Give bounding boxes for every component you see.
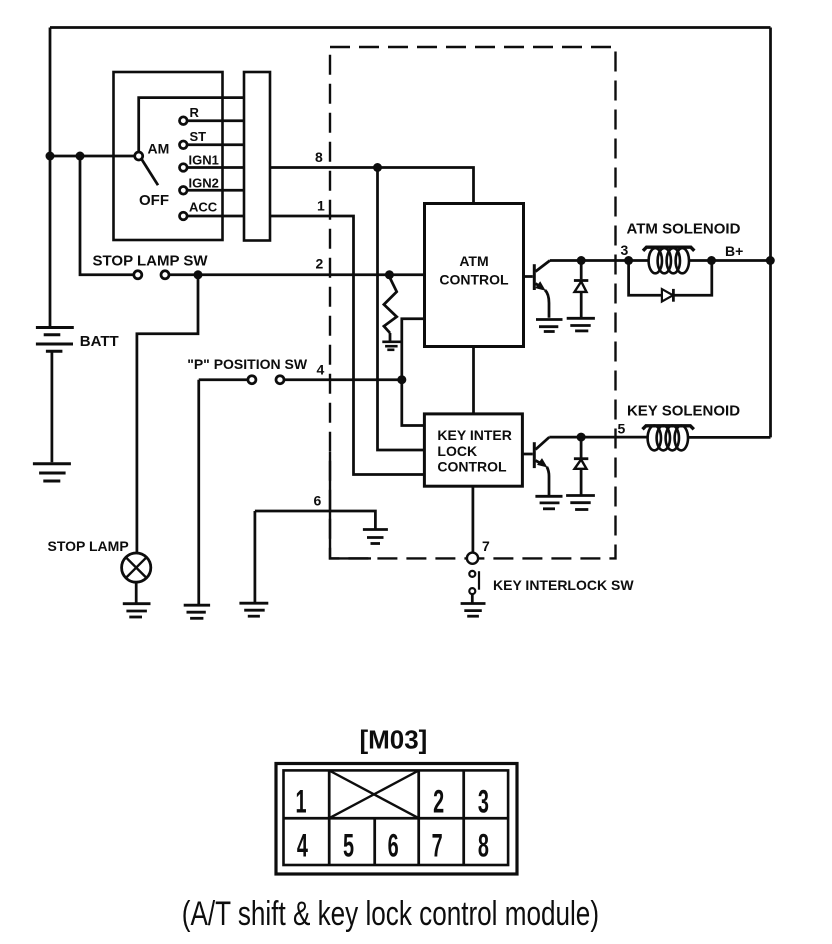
node junction diode D2: [577, 433, 586, 442]
ground wire6 left: [239, 603, 268, 616]
wire stop lamp branch: [137, 275, 198, 553]
svg-text:CONTROL: CONTROL: [437, 459, 507, 475]
wire left battery feed: [49, 28, 52, 327]
node junction solenoid out: [707, 256, 716, 265]
ground wire6 right: [363, 530, 388, 544]
svg-text:6: 6: [388, 828, 399, 864]
wire solid run of dashed box lower-left: [330, 452, 371, 558]
svg-text:R: R: [190, 105, 200, 120]
node junction branch79: [76, 152, 85, 161]
svg-text:KEY INTERLOCK SW: KEY INTERLOCK SW: [493, 577, 634, 593]
node junction left: [46, 152, 55, 161]
svg-text:ST: ST: [190, 129, 207, 144]
connector bottom dividers: [328, 818, 331, 866]
contact IGN1: [180, 164, 188, 172]
node junction wire4: [397, 375, 406, 384]
contact ST: [180, 141, 188, 149]
connector M03 outer: [276, 764, 517, 875]
node 3: [624, 256, 633, 265]
op-amp block ATM CONTROL U1: [425, 204, 524, 347]
wire top bus B+: [50, 26, 771, 29]
contact AM: [135, 152, 143, 160]
wire 4 up to atm control: [402, 319, 425, 380]
svg-text:B+: B+: [725, 243, 743, 259]
switch KEY INTERLOCK SW: [469, 571, 475, 577]
svg-text:3: 3: [478, 784, 489, 820]
wire 2 to atm control: [169, 273, 425, 276]
svg-text:AM: AM: [148, 141, 170, 157]
wire AM terminal to connector: [139, 98, 244, 152]
svg-text:ACC: ACC: [189, 200, 218, 215]
wire atm to key link: [472, 347, 475, 414]
node junction stop lamp: [194, 270, 203, 279]
solenoid L2 coil: [648, 426, 661, 451]
svg-text:4: 4: [297, 828, 308, 864]
contact R: [180, 117, 188, 125]
wire 1 to key interlock control: [270, 216, 424, 475]
connector M03 inner: [284, 770, 509, 865]
svg-text:"P" POSITION SW: "P" POSITION SW: [187, 356, 308, 372]
switch lever: [142, 160, 158, 186]
contact ACC: [180, 212, 188, 220]
svg-text:ATM: ATM: [459, 253, 488, 269]
wire key control to node 7: [472, 486, 475, 552]
wire 8 to module: [270, 168, 474, 204]
wire Q1 collector: [550, 259, 629, 262]
wire ACC to connector: [187, 215, 244, 218]
svg-text:STOP LAMP: STOP LAMP: [48, 538, 129, 554]
wire R to connector: [187, 119, 244, 122]
svg-text:STOP LAMP SW: STOP LAMP SW: [93, 253, 209, 270]
dashed module box: [330, 47, 616, 558]
svg-text:2: 2: [433, 784, 444, 820]
node 7: [467, 553, 478, 564]
svg-text:ATM SOLENOID: ATM SOLENOID: [627, 221, 741, 238]
svg-text:7: 7: [482, 538, 490, 554]
ground diode D1: [567, 318, 595, 331]
svg-text:6: 6: [314, 493, 322, 509]
svg-text:OFF: OFF: [139, 192, 169, 209]
ground Q2 emitter: [535, 496, 562, 509]
svg-text:1: 1: [317, 198, 325, 214]
wire key interlock sw to ground: [471, 594, 474, 602]
contact IGN2: [180, 187, 188, 195]
wire 5 to right bus: [688, 436, 771, 439]
svg-text:8: 8: [315, 149, 323, 165]
solenoid L1 coil: [629, 259, 649, 262]
svg-text:4: 4: [317, 362, 325, 378]
wire resistor to ground: [389, 333, 392, 341]
wire branch to stop lamp sw: [80, 156, 134, 275]
wire right B+ vertical: [769, 28, 772, 438]
wire IGN2 to connector: [187, 189, 244, 192]
svg-text:2: 2: [316, 256, 324, 272]
transistor Q1: [524, 275, 533, 278]
svg-text:CONTROL: CONTROL: [439, 272, 509, 288]
node junction right bus: [766, 256, 775, 265]
svg-text:BATT: BATT: [80, 333, 119, 350]
lamp STOP LAMP: [122, 553, 151, 582]
ground resistor: [382, 342, 400, 350]
wire battery to ground: [51, 351, 54, 462]
diode D2 clamp: [580, 437, 583, 457]
svg-text:[M03]: [M03]: [359, 725, 427, 755]
resistor R pull: [385, 270, 394, 279]
ground battery: [33, 464, 71, 481]
node junction wire8: [373, 163, 382, 172]
ground stop lamp: [123, 604, 151, 617]
transistor Q2: [522, 453, 532, 456]
ground p position sw: [184, 605, 210, 618]
solenoid L2 KEY core: [643, 426, 694, 430]
wire 6 left to ground: [254, 511, 257, 603]
wire 4 to junction: [284, 378, 402, 381]
ground diode D2: [566, 496, 595, 510]
svg-text:8: 8: [478, 828, 489, 864]
svg-text:IGN1: IGN1: [189, 153, 219, 168]
switch p position sw: [248, 376, 256, 384]
svg-text:IGN2: IGN2: [189, 176, 219, 191]
wire 8 branch to key interlock control: [378, 168, 425, 451]
wire AM feed: [50, 155, 135, 158]
wire ST to connector: [187, 143, 244, 146]
switch stop lamp sw: [134, 271, 142, 279]
svg-text:1: 1: [295, 784, 306, 820]
svg-text:LOCK: LOCK: [437, 443, 477, 459]
wire IGN1 to connector: [187, 166, 244, 169]
connector bar: [244, 72, 270, 241]
connector top dividers: [328, 771, 331, 819]
svg-text:(A/T shift & key lock control: (A/T shift & key lock control module): [182, 896, 599, 933]
svg-text:5: 5: [343, 828, 354, 864]
battery BATT plates: [36, 328, 74, 352]
diode D1 clamp: [580, 261, 583, 280]
ground key interlock sw: [461, 604, 486, 617]
wire 6: [255, 511, 376, 529]
wire 4 down to key interlock control: [402, 380, 425, 426]
wire 4 from p position sw: [199, 378, 248, 381]
wire p position sw to ground: [197, 380, 200, 605]
svg-text:KEY SOLENOID: KEY SOLENOID: [627, 403, 740, 420]
op-amp block KEY INTER LOCK CONTROL U2: [424, 414, 522, 486]
diode D3 bypass: [629, 261, 662, 296]
svg-text:7: 7: [432, 828, 443, 864]
wire lamp to ground: [135, 582, 138, 603]
svg-text:KEY INTER: KEY INTER: [437, 427, 511, 443]
connector keyway X: [329, 771, 419, 819]
svg-text:5: 5: [618, 421, 626, 437]
svg-text:3: 3: [621, 242, 629, 258]
ground Q1 emitter: [536, 320, 563, 332]
connector row divider: [284, 817, 510, 820]
wire Q2 collector / wire 5: [549, 436, 648, 439]
node junction diode D1: [577, 256, 586, 265]
solenoid L1 ATM core: [643, 247, 694, 251]
ignition switch box: [114, 72, 223, 240]
